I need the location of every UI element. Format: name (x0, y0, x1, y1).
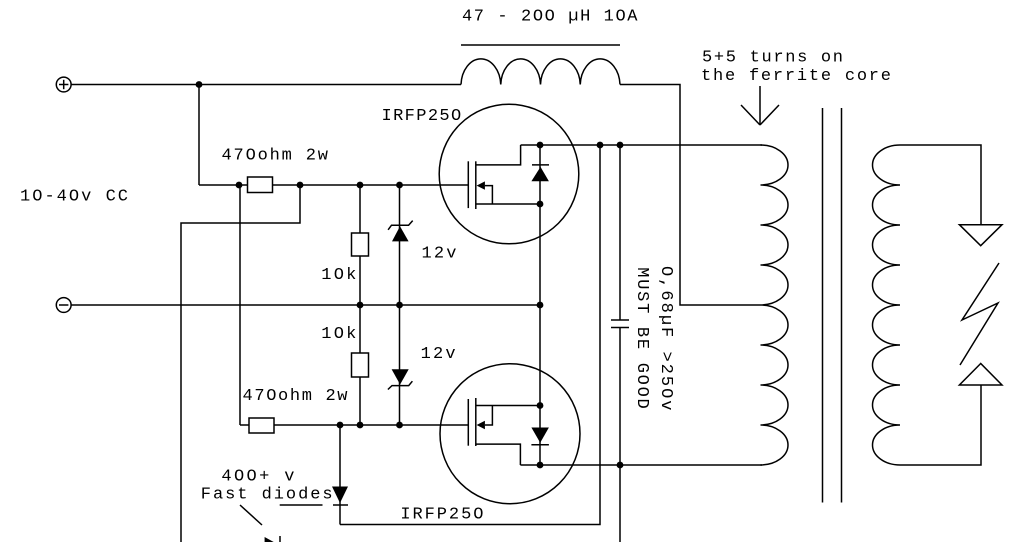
svg-text:47 - 2OO µH 1OA: 47 - 2OO µH 1OA (462, 8, 638, 27)
svg-text:12v: 12v (422, 245, 457, 264)
op bottom MOSFET Q2 IRFP250 circle (440, 364, 580, 504)
svg-text:5+5 turns on: 5+5 turns on (702, 48, 843, 67)
transistor Q2 gate bar (467, 399, 469, 446)
transformer T1 core line left (822, 108, 824, 503)
resistor R4 10k (lower) leads (359, 305, 361, 425)
spark gap upper electrode (triangle down) (959, 225, 1002, 246)
node junctions on top drain rail (597, 142, 624, 149)
resistor R1 470ohm 2w (upper) (248, 177, 273, 193)
wire + rail to inductor (71, 84, 461, 86)
wire jog from top gate rail to left down-column (181, 185, 300, 542)
capacitor C1 plates (611, 319, 629, 321)
resistor R3 10k (upper) leads (359, 185, 361, 305)
inductor L1 47-200uH (461, 59, 620, 85)
spark lightning bolt (960, 263, 999, 365)
spark gap lower electrode (triangle up) (959, 364, 1002, 386)
transformer T1 secondary winding (873, 145, 901, 465)
transistor Q1 bulk arrow (477, 181, 485, 189)
transistor Q2 drain stub (476, 444, 521, 465)
underline of Fast diodes (280, 504, 323, 506)
transistor Q1 channel bar (475, 161, 477, 209)
wire top drain rail (521, 144, 762, 146)
zener D2 12v (lower) cathode bar with tick (388, 381, 413, 389)
node junctions on bottom gate rail (337, 422, 403, 429)
resistor R2 470ohm 2w (lower) body (249, 418, 274, 433)
diode D3 fast diode (vertical) lead (339, 425, 341, 525)
pointer line to bottom diode (240, 505, 262, 525)
label 0,68uF >250v MUST BE GOOD (rotated) (632, 266, 675, 411)
diode Q2 body diode triangle (531, 428, 549, 443)
diode Q1 body diode bar (532, 164, 549, 166)
wire bottom drain rail (520, 464, 762, 466)
svg-text:12v: 12v (421, 345, 456, 364)
transistor Q1 drain stub (476, 145, 521, 165)
resistor R4 10k (lower) body (352, 353, 369, 377)
svg-text:Fast diodes: Fast diodes (201, 486, 333, 505)
node junction on bottom drain rail (617, 462, 624, 469)
node junction on + rail (196, 81, 203, 88)
wire vertical from + rail down to top gate rail (198, 85, 200, 186)
zener D1 12v (upper) triangle (392, 226, 409, 241)
svg-text:IRFP25O: IRFP25O (382, 107, 462, 126)
capacitor C1 lead lower (619, 328, 621, 542)
zener D2 12v (lower) triangle (392, 369, 409, 384)
wire spark gap to secondary bottom (900, 385, 981, 465)
terminal - (negative supply) (56, 298, 71, 313)
node junctions on top gate rail (236, 182, 403, 189)
diode D4 cathode bar (279, 536, 281, 542)
svg-text:1Ok: 1Ok (321, 266, 356, 285)
diode Q2 body diode bar (531, 444, 549, 446)
svg-text:the ferrite core: the ferrite core (701, 67, 891, 86)
transistor Q2 bulk arrow (477, 421, 485, 429)
wire bottom gate rail (to gate of lower IRFP250) (240, 424, 249, 426)
annotation arrow to primary (741, 86, 779, 125)
wire cross-coupling column x=600 (340, 145, 600, 525)
inductor L1 overbar (461, 44, 620, 46)
diode Q1 body diode triangle (531, 167, 549, 181)
transistor Q2 source stub (476, 405, 540, 407)
transistor Q2 bulk link (485, 406, 493, 426)
wire inductor to primary center tap (620, 85, 761, 306)
diode D3 fast diode triangle (332, 487, 348, 504)
node junctions on minus rail (357, 302, 544, 309)
wire common source column x=540 (539, 145, 541, 465)
zener D1 12v (upper) lead (399, 185, 401, 305)
svg-text:47Oohm 2w: 47Oohm 2w (222, 147, 329, 166)
zener D1 12v (upper) cathode bar with tick (388, 221, 413, 230)
svg-text:1O-4Ov CC: 1O-4Ov CC (20, 188, 128, 207)
transistor Q1 bulk link (485, 186, 493, 204)
capacitor C1 lead upper (619, 145, 621, 320)
svg-text:47Oohm 2w: 47Oohm 2w (243, 387, 349, 406)
svg-text:MUST BE GOOD: MUST BE GOOD (632, 267, 651, 408)
wire minus rail (71, 304, 540, 306)
diode D4 fast diode (bottom edge, cut off) triangle (265, 537, 275, 542)
zener D2 12v (lower) lead (399, 305, 401, 425)
transistor Q1 gate bar (467, 161, 469, 208)
transformer T1 primary winding (761, 145, 789, 465)
resistor R3 10k (upper) body (352, 233, 369, 256)
svg-text:IRFP25O: IRFP25O (400, 506, 483, 525)
wire top gate rail (to gate of upper IRFP250) (199, 184, 468, 186)
transistor Q2 channel bar (475, 398, 477, 446)
transformer T1 core line right (841, 108, 843, 503)
wire left column x=240 from top gate rail down to bottom gate rail (239, 185, 241, 425)
svg-text:1Ok: 1Ok (321, 325, 356, 344)
wire secondary top to spark gap (900, 145, 981, 225)
diode D3 fast diode cathode bar (333, 504, 348, 506)
node junctions on x=540 column (537, 142, 544, 469)
op top MOSFET Q1 IRFP250 circle (439, 104, 579, 244)
terminal + (positive supply) (56, 77, 71, 92)
transistor Q1 source stub (476, 203, 540, 205)
